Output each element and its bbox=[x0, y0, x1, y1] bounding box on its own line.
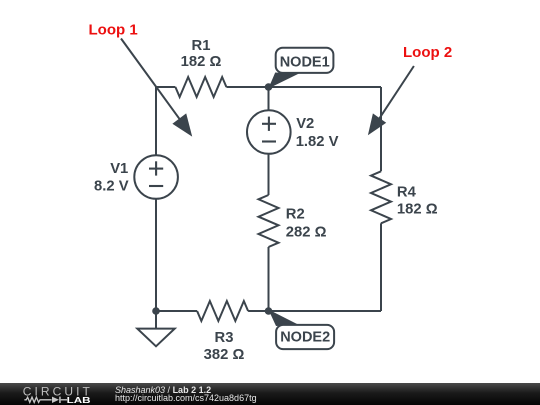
svg-text:NODE1: NODE1 bbox=[280, 54, 330, 70]
svg-text:R3: R3 bbox=[215, 330, 234, 346]
wire right vertical lower bbox=[380, 223, 382, 311]
svg-text:R2: R2 bbox=[286, 206, 305, 222]
node junction dot bottom-left bbox=[152, 307, 160, 315]
svg-text:382 Ω: 382 Ω bbox=[204, 347, 245, 363]
node NODE1 flag bbox=[268, 48, 333, 89]
wire bottom horizontal left segment bbox=[156, 310, 197, 312]
svg-text:8.2 V: 8.2 V bbox=[94, 179, 129, 195]
svg-text:182 Ω: 182 Ω bbox=[181, 54, 222, 70]
svg-text:1.82 V: 1.82 V bbox=[296, 134, 339, 150]
voltage source V2 bbox=[247, 110, 291, 154]
svg-text:282 Ω: 282 Ω bbox=[286, 224, 327, 240]
wire left vertical lower bbox=[155, 199, 157, 311]
svg-text:NODE2: NODE2 bbox=[280, 330, 330, 346]
wire left vertical upper bbox=[155, 87, 157, 155]
wire middle vertical lower bbox=[268, 247, 270, 311]
svg-text:182 Ω: 182 Ω bbox=[397, 202, 438, 218]
voltage source V1 bbox=[134, 155, 178, 199]
svg-text:LAB: LAB bbox=[67, 395, 91, 405]
svg-text:Loop 2: Loop 2 bbox=[403, 44, 452, 61]
CircuitLab logo bbox=[0, 383, 110, 405]
wire right vertical upper bbox=[380, 87, 382, 171]
wire bottom horizontal right segment bbox=[248, 310, 381, 312]
node junction dot NODE1 bbox=[265, 83, 273, 91]
node junction dot NODE2 bbox=[265, 307, 273, 315]
resistor R4 bbox=[371, 171, 391, 223]
svg-text:Loop 1: Loop 1 bbox=[89, 21, 138, 38]
svg-text:R4: R4 bbox=[397, 185, 417, 201]
annotation arrow Loop 1 bbox=[121, 39, 192, 137]
footer credit text bbox=[115, 386, 257, 402]
annotation arrow Loop 2 bbox=[368, 66, 414, 135]
wire top horizontal left segment bbox=[156, 86, 175, 88]
ground bbox=[137, 311, 174, 346]
node NODE2 flag bbox=[268, 310, 334, 350]
wire top horizontal right segment bbox=[226, 86, 381, 88]
resistor R2 bbox=[259, 195, 279, 247]
resistor R1 bbox=[175, 77, 226, 97]
wire middle vertical upper bbox=[268, 87, 270, 110]
wire middle vertical mid bbox=[268, 155, 270, 196]
svg-text:V2: V2 bbox=[296, 116, 314, 132]
svg-text:V1: V1 bbox=[110, 161, 128, 177]
footer bar bbox=[0, 383, 540, 405]
resistor R3 bbox=[197, 301, 248, 321]
svg-text:R1: R1 bbox=[192, 38, 211, 54]
